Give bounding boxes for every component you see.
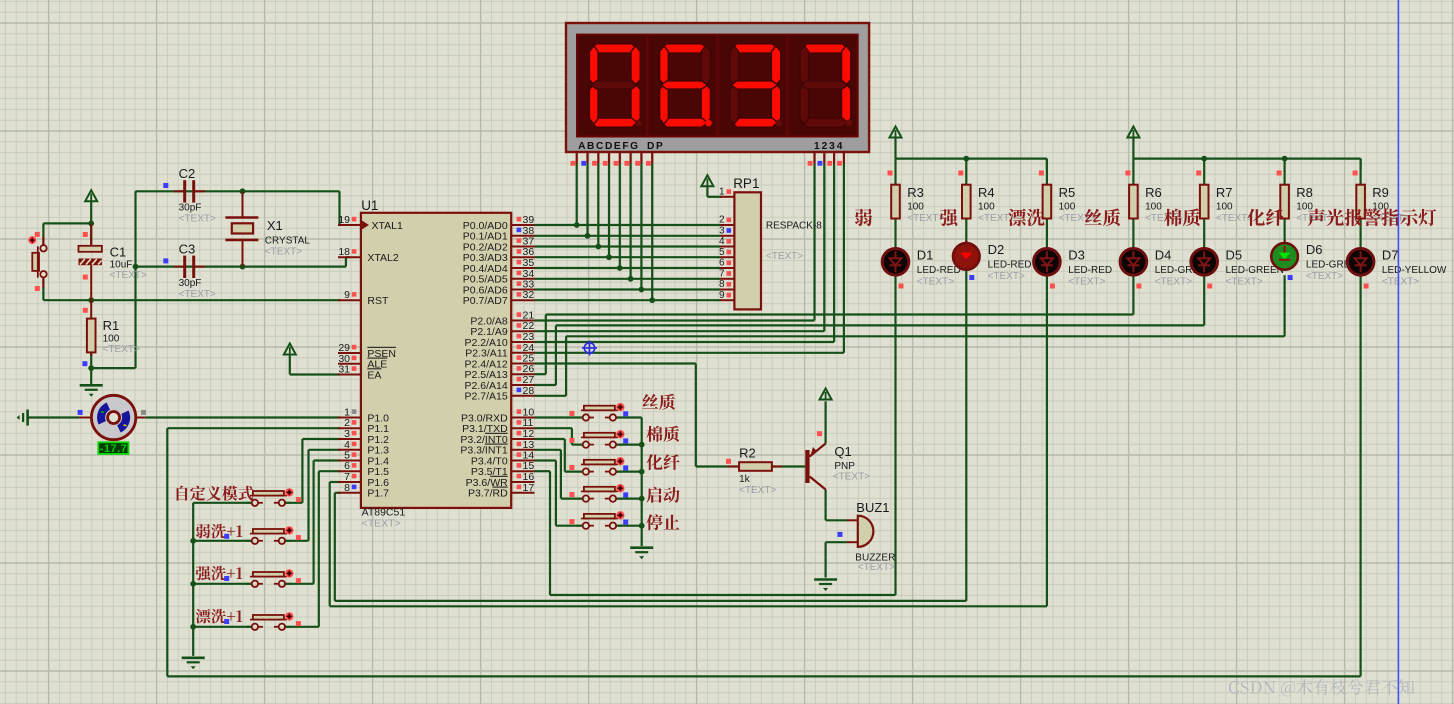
pin 5 — [338, 450, 361, 462]
svg-text:8: 8 — [719, 279, 725, 290]
marker R3 — [888, 171, 893, 176]
svg-text:9: 9 — [719, 290, 725, 301]
svg-text:<TEXT>: <TEXT> — [833, 472, 870, 483]
svg-text:100: 100 — [103, 334, 120, 345]
node P0.0 tap — [574, 222, 580, 228]
marker R2 — [726, 459, 731, 464]
svg-text:17: 17 — [523, 482, 535, 494]
pin 12 — [511, 428, 534, 440]
wire P0.5 bus — [535, 278, 721, 280]
display pin digit 1 — [808, 152, 815, 166]
wire display seg 5 drop — [629, 164, 631, 279]
svg-text:P2.7/A15: P2.7/A15 — [464, 391, 507, 403]
resistor R8 — [1280, 185, 1289, 219]
svg-text:30pF: 30pF — [179, 278, 202, 289]
svg-text:P1.7: P1.7 — [367, 488, 389, 500]
svg-text:100: 100 — [1059, 202, 1076, 213]
node X1 bottom — [240, 264, 246, 270]
wire P0.0 bus — [535, 224, 721, 226]
marker R4 — [958, 171, 963, 176]
wire D1 cathode — [894, 275, 896, 595]
ground motor — [17, 410, 28, 426]
display pin seg D — [603, 152, 609, 166]
wire P3.1 to button — [535, 428, 583, 444]
svg-text:28: 28 — [523, 385, 535, 397]
node button common — [190, 581, 196, 587]
marker D1 — [899, 284, 904, 289]
pin 1 — [338, 407, 361, 419]
svg-text:RESPACK-8: RESPACK-8 — [766, 221, 822, 232]
display digit separator — [646, 36, 649, 136]
pin 37 — [511, 236, 534, 248]
svg-text:BUZ1: BUZ1 — [856, 500, 889, 515]
svg-text:U1: U1 — [361, 198, 378, 213]
svg-text:R3: R3 — [907, 185, 924, 200]
resistor R1 — [87, 300, 96, 356]
pin 4 — [338, 439, 361, 451]
pin 2 — [338, 417, 361, 429]
marker R6 — [1125, 171, 1130, 176]
marker R1 bottom — [82, 361, 87, 366]
svg-text:D5: D5 — [1226, 248, 1243, 263]
pin 9 — [338, 289, 361, 301]
motor rpm display — [98, 442, 128, 455]
svg-text:XTAL1: XTAL1 — [372, 220, 403, 232]
pin RP1 9 — [719, 290, 734, 301]
svg-text:C2: C2 — [179, 166, 196, 181]
svg-text:D4: D4 — [1155, 248, 1172, 263]
wire middle button row — [616, 498, 642, 500]
pin 28 — [511, 385, 534, 397]
marker D4 — [1136, 284, 1141, 289]
crystal X1 — [225, 191, 258, 266]
label 棉质 — [1164, 209, 1200, 227]
label 丝质 — [1085, 209, 1120, 227]
marker button right — [623, 492, 628, 497]
wire RP1 pin1 VCC — [707, 187, 722, 197]
pin 31 — [338, 364, 361, 376]
marker button right — [623, 465, 628, 470]
svg-text:ABCDEFG: ABCDEFG — [578, 141, 640, 152]
wire P2.5 track to D4 — [535, 275, 1134, 374]
pin 11 — [511, 417, 534, 429]
node P0.7 tap — [649, 297, 655, 303]
wire P1.6 rail to D3 — [330, 482, 1047, 606]
svg-text:<TEXT>: <TEXT> — [103, 344, 140, 355]
svg-text:Q1: Q1 — [834, 444, 851, 459]
marker BUZ1 — [838, 532, 843, 537]
button 启动 — [577, 484, 625, 502]
marker button RESET top — [35, 232, 40, 237]
pin 3 — [338, 428, 361, 440]
button 化纤 — [577, 457, 625, 475]
svg-text:R1: R1 — [103, 318, 120, 333]
wire P3.5 rail to D1 — [535, 471, 896, 595]
pin 25 — [511, 353, 534, 365]
svg-text:DP: DP — [647, 141, 664, 152]
svg-text:XTAL2: XTAL2 — [367, 252, 398, 264]
pin 34 — [511, 268, 534, 280]
svg-text:<TEXT>: <TEXT> — [179, 214, 216, 225]
wire D7 cathode — [1359, 275, 1361, 676]
svg-text:LED-RED: LED-RED — [988, 260, 1032, 271]
wire display seg 6 drop — [640, 164, 642, 290]
svg-text:R2: R2 — [739, 446, 756, 461]
marker D2 — [969, 275, 974, 280]
watermark CSDN — [1229, 679, 1414, 696]
svg-text:<TEXT>: <TEXT> — [265, 247, 302, 258]
label 强洗+1 — [196, 566, 243, 580]
svg-text:D1: D1 — [917, 248, 934, 263]
pin 7 — [338, 471, 361, 483]
svg-text:100: 100 — [1216, 202, 1233, 213]
svg-text:-17.7: -17.7 — [100, 443, 128, 455]
wire middle button row — [616, 444, 642, 446]
svg-text:18: 18 — [338, 246, 350, 258]
marker C1 top — [83, 232, 88, 237]
svg-text:R5: R5 — [1059, 185, 1076, 200]
marker button RESET bottom — [35, 286, 40, 291]
svg-text:4: 4 — [719, 236, 725, 247]
svg-text:PNP: PNP — [834, 461, 855, 472]
wire P1.4 to button — [284, 461, 340, 584]
node VCC-C1 — [88, 221, 94, 227]
svg-text:5: 5 — [719, 247, 725, 258]
display digit 1 (0) — [589, 44, 641, 127]
svg-text:8: 8 — [344, 482, 350, 494]
svg-text:C3: C3 — [179, 241, 196, 256]
power +5V left — [85, 190, 97, 202]
svg-text:100: 100 — [1145, 202, 1162, 213]
pin RP1 3 — [719, 225, 734, 236]
pin 39 — [511, 214, 534, 226]
display pin seg E — [614, 152, 620, 166]
wire display seg 7 drop — [651, 164, 653, 301]
display pin seg F — [624, 152, 630, 166]
pin 33 — [511, 279, 534, 291]
pin 14 — [511, 450, 534, 462]
pin 26 — [511, 363, 534, 375]
wire middle button row — [616, 525, 642, 527]
wire P0.3 bus — [535, 256, 721, 258]
node P0.5 tap — [628, 276, 634, 282]
svg-text:<TEXT>: <TEXT> — [1226, 276, 1263, 287]
display pin digit 3 — [827, 152, 834, 166]
wire P2.3 to digit 4 — [535, 164, 844, 353]
pin RP1 8 — [719, 279, 734, 290]
svg-text:C1: C1 — [110, 245, 127, 260]
svg-text:D6: D6 — [1306, 242, 1323, 257]
marker motor right — [141, 410, 146, 415]
svg-text:D2: D2 — [988, 242, 1005, 257]
ground R1 — [80, 385, 103, 397]
LED D5 — [1191, 247, 1218, 276]
svg-text:100: 100 — [907, 202, 924, 213]
wire P2.2 to digit 3 — [535, 164, 835, 343]
wire P3.4 to button — [535, 461, 583, 526]
wire P2.7 track to D6 — [535, 275, 1285, 396]
marker button right — [296, 497, 301, 502]
label 弱洗+1 — [196, 524, 242, 539]
LED D3 — [1034, 247, 1061, 276]
svg-text:R4: R4 — [978, 185, 995, 200]
svg-text:LED-YELLOW: LED-YELLOW — [1382, 265, 1447, 276]
sheet border — [1397, 0, 1399, 704]
pin 32 — [511, 289, 534, 301]
pin 8 — [338, 482, 361, 494]
node C1-RST — [88, 297, 94, 303]
wire D2 cathode — [965, 270, 967, 601]
svg-text:<TEXT>: <TEXT> — [362, 518, 401, 530]
svg-text:P0.7/AD7: P0.7/AD7 — [463, 295, 508, 307]
pin RP1 1 — [719, 187, 734, 198]
power +5V rail1 — [890, 127, 902, 139]
origin crosshair marker — [582, 341, 597, 356]
wire XTAL2 net — [136, 257, 350, 266]
capacitor C1 — [79, 223, 102, 300]
marker C3 — [163, 258, 168, 263]
display pin digit 2 — [818, 152, 825, 166]
label 自定义模式 — [177, 486, 254, 501]
wire P1.3 to button — [284, 450, 340, 541]
pin 15 — [511, 460, 534, 472]
pin 6 — [338, 460, 361, 472]
display pin seg G — [635, 152, 641, 166]
wire resistor to LED — [1283, 159, 1285, 249]
capacitor C3 — [174, 256, 205, 278]
pin 13 — [511, 439, 534, 451]
wire P1.7 rail to D2 — [335, 493, 967, 601]
display digit 3 (3) — [730, 44, 782, 127]
label 漂洗 — [1008, 209, 1044, 226]
display pin digit 4 — [837, 152, 844, 166]
display pin seg DP — [646, 152, 652, 166]
wire XTAL1 net — [136, 191, 341, 225]
wire VCC rail group2 — [1133, 137, 1360, 171]
node rail1-R4 — [963, 156, 969, 162]
svg-text:<TEXT>: <TEXT> — [917, 276, 954, 287]
wire R2 to Q1 base — [772, 465, 805, 467]
wire P3.3 to button — [535, 450, 583, 499]
power +5V RP1 — [701, 175, 713, 187]
label 化纤 — [1247, 209, 1283, 226]
pin RP1 2 — [719, 215, 734, 226]
wire button row — [193, 626, 252, 628]
svg-text:<TEXT>: <TEXT> — [1382, 276, 1419, 287]
marker button left — [569, 519, 574, 524]
wire resistor to LED — [1046, 159, 1048, 249]
node X1 top — [240, 188, 246, 194]
pin RP1 6 — [719, 258, 734, 269]
label 化纤 — [646, 454, 679, 470]
display digit separator — [786, 36, 789, 136]
wire P2.6 track to D5 — [535, 275, 1205, 385]
wire VCC rail group1 — [896, 137, 1047, 171]
pin 16 — [511, 471, 534, 483]
node P0.6 tap — [639, 287, 645, 293]
capacitor C2 — [174, 180, 205, 202]
marker R7 — [1196, 171, 1201, 176]
wire P1.5 to button — [284, 471, 340, 627]
marker button right — [623, 520, 628, 525]
wire P3.2 to button — [535, 439, 583, 472]
svg-text:<TEXT>: <TEXT> — [907, 213, 944, 224]
svg-text:D7: D7 — [1382, 248, 1399, 263]
button 弱洗+1 — [246, 526, 294, 544]
wire resistor to LED — [1203, 159, 1205, 249]
MCU U1 AT89C51 body — [361, 213, 511, 508]
pin 35 — [511, 257, 534, 269]
LED D4 — [1120, 247, 1147, 276]
marker R5 — [1039, 171, 1044, 176]
7-segment display panel — [577, 35, 858, 137]
marker R1 top — [83, 308, 88, 313]
wire button row — [193, 583, 252, 585]
display digit 4 (7) — [800, 44, 852, 127]
svg-text:19: 19 — [338, 214, 350, 226]
resistor R4 — [962, 185, 971, 219]
pin 30 — [338, 353, 361, 365]
marker D3 — [1050, 284, 1055, 289]
wire R1 bottom to ground — [90, 352, 92, 384]
svg-text:6: 6 — [719, 258, 725, 269]
pin 19 — [338, 214, 361, 226]
svg-text:32: 32 — [523, 289, 535, 301]
wire button row — [193, 540, 252, 542]
power +5V Q1 — [820, 389, 832, 401]
wire P0.6 bus — [535, 288, 721, 290]
wire P1.2 to button — [284, 439, 340, 503]
marker button right — [623, 438, 628, 443]
marker button right — [296, 535, 301, 540]
node P0.1 tap — [585, 233, 591, 239]
svg-text:30pF: 30pF — [179, 203, 202, 214]
marker 弱洗 — [224, 534, 229, 539]
respack RP1 body — [734, 192, 761, 309]
node P0.4 tap — [617, 265, 623, 271]
LED D2 — [953, 240, 980, 270]
node R1-bus — [88, 365, 94, 371]
label 弱 — [855, 209, 872, 226]
wire button common — [193, 503, 252, 656]
label 停止 — [646, 514, 679, 530]
pin 29 — [338, 342, 361, 354]
button 漂洗+1 — [246, 612, 294, 630]
marker C2 — [163, 183, 168, 188]
label 漂洗+1 — [196, 609, 243, 624]
wire P2.1 to digit 2 — [535, 164, 825, 332]
resistor R3 — [891, 185, 900, 219]
marker D7 — [1364, 284, 1369, 289]
resistor R6 — [1129, 185, 1138, 219]
wire middle button common — [616, 418, 642, 547]
svg-text:RST: RST — [367, 295, 389, 307]
svg-text:X1: X1 — [267, 218, 283, 233]
marker button right — [296, 578, 301, 583]
svg-text:<TEXT>: <TEXT> — [988, 271, 1025, 282]
pin 17 — [511, 482, 534, 494]
pin RP1 4 — [719, 236, 734, 247]
ground buttons — [182, 658, 205, 670]
svg-text:EA: EA — [367, 369, 381, 381]
svg-text:9: 9 — [344, 289, 350, 301]
wire D3 cathode — [1046, 275, 1048, 606]
marker button right — [623, 411, 628, 416]
svg-text:<TEXT>: <TEXT> — [1296, 213, 1333, 224]
marker button right — [296, 621, 301, 626]
button RESET — [28, 236, 46, 288]
svg-text:1: 1 — [719, 187, 725, 198]
pin 10 — [511, 407, 534, 419]
marker Q1 top — [817, 431, 822, 436]
marker D5 — [1207, 284, 1212, 289]
marker button left — [569, 411, 574, 416]
pin RP1 5 — [719, 247, 734, 258]
resistor R9 — [1356, 185, 1365, 219]
wire P0.4 bus — [535, 267, 721, 269]
wire resistor to LED — [894, 159, 896, 249]
svg-text:7: 7 — [719, 268, 725, 279]
node button common — [190, 538, 196, 544]
node rail2-R7 — [1201, 156, 1207, 162]
svg-text:<TEXT>: <TEXT> — [1068, 276, 1105, 287]
marker 强洗 — [224, 576, 229, 581]
svg-text:31: 31 — [338, 364, 350, 376]
display pin seg A — [571, 152, 577, 166]
wire P0.2 bus — [535, 245, 721, 247]
button 棉质 — [577, 430, 625, 448]
power +5V EA — [284, 344, 296, 356]
transistor Q1 — [805, 444, 825, 490]
label 丝质 — [642, 394, 674, 410]
svg-text:RP1: RP1 — [733, 176, 759, 191]
svg-text:<TEXT>: <TEXT> — [179, 289, 216, 300]
wire P2.4 to R2 — [535, 364, 740, 467]
marker R9 — [1353, 171, 1358, 176]
resistor R2 — [727, 462, 782, 471]
node button common — [190, 624, 196, 630]
LED D7 — [1347, 247, 1374, 276]
button 停止 — [577, 511, 625, 529]
ground BUZ1 — [814, 580, 837, 592]
pin 21 — [511, 310, 534, 322]
svg-text:R7: R7 — [1216, 185, 1233, 200]
svg-text:LED-RED: LED-RED — [1068, 265, 1112, 276]
wire BUZ1 to ground — [826, 542, 847, 577]
wire display seg 0 drop — [576, 164, 578, 226]
display pin seg B — [581, 152, 587, 166]
label 棉质 — [646, 426, 679, 442]
svg-text:<TEXT>: <TEXT> — [1306, 271, 1343, 282]
label 声光报警指示灯 — [1308, 209, 1437, 226]
node C3-bus — [133, 264, 139, 270]
display pin seg C — [592, 152, 598, 166]
svg-text:2: 2 — [719, 215, 725, 226]
wire P0.1 bus — [535, 235, 721, 237]
wire RST net — [43, 277, 340, 300]
svg-text:100: 100 — [978, 202, 995, 213]
node P0.2 tap — [595, 244, 601, 250]
wire Q1 collector to BUZ1 — [826, 490, 847, 521]
wire middle button row — [616, 471, 642, 473]
wire display seg 3 drop — [608, 164, 610, 258]
marker 漂洗 — [224, 619, 229, 624]
wire P1.1 loop to D7 — [167, 428, 1360, 676]
7-segment display frame — [566, 23, 869, 152]
LED D1 — [882, 247, 909, 276]
pin 22 — [511, 320, 534, 332]
marker R8 — [1277, 171, 1282, 176]
